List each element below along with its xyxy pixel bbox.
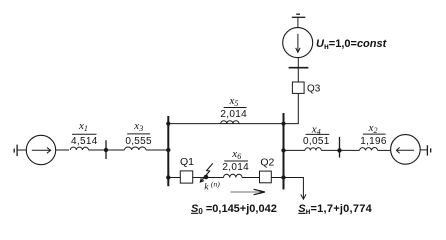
breaker Q1 — [180, 156, 194, 183]
reactor x3 coil — [125, 147, 146, 150]
node junction tick right — [337, 137, 341, 158]
wire — [89, 149, 125, 151]
svg-text:Q1: Q1 — [180, 156, 194, 168]
wire — [242, 177, 259, 179]
svg-text:0,051: 0,051 — [303, 136, 330, 147]
svg-text:(n): (n) — [211, 179, 220, 188]
reactor x2 coil — [360, 147, 378, 150]
svg-text:2,014: 2,014 — [220, 109, 247, 120]
wire — [193, 177, 224, 179]
breaker Q3 — [292, 82, 320, 94]
label x2 — [360, 122, 387, 147]
svg-text:Q3: Q3 — [307, 83, 321, 94]
wire bottom branch left — [168, 177, 180, 179]
wire — [56, 149, 69, 151]
wire right main — [284, 149, 306, 151]
wire — [321, 149, 359, 151]
bus bar right vertical — [281, 113, 285, 190]
source system top — [283, 28, 313, 58]
svg-text:Q2: Q2 — [260, 156, 274, 168]
reactor x5 coil — [221, 121, 239, 124]
svg-text:S0 =0,145+j0,042: S0 =0,145+j0,042 — [191, 203, 277, 216]
wire — [271, 177, 283, 179]
wire top branch — [168, 93, 298, 123]
fault k(n) lightning — [200, 163, 220, 192]
system terminal right — [427, 145, 430, 155]
svg-text:0,555: 0,555 — [125, 136, 152, 147]
wire — [420, 149, 427, 151]
load arrow S_H — [284, 178, 307, 200]
label x1 — [71, 120, 98, 147]
generator G2 (right source) — [391, 135, 421, 165]
flow direction arrow — [231, 189, 266, 194]
wire — [378, 149, 391, 151]
label x5 — [220, 95, 247, 120]
svg-text:1,196: 1,196 — [360, 136, 387, 147]
generator G1 (left source) — [26, 135, 55, 164]
label x4 — [303, 123, 330, 147]
node junction tick left — [104, 140, 108, 159]
system terminal left — [14, 145, 17, 157]
reactor x4 coil — [305, 148, 321, 151]
svg-text:4,514: 4,514 — [71, 136, 98, 147]
wire — [297, 17, 299, 27]
label x6 — [222, 148, 249, 173]
reactor x1 coil — [70, 147, 88, 150]
wire — [146, 149, 168, 151]
label x3 — [125, 120, 152, 147]
breaker Q2 — [260, 156, 275, 182]
system terminal top — [292, 14, 306, 17]
wire — [17, 149, 26, 151]
tick bar below top source — [289, 67, 309, 69]
svg-text:2,014: 2,014 — [222, 162, 249, 173]
wire — [297, 58, 299, 82]
reactor x6 coil — [224, 174, 243, 177]
bus bar left vertical — [166, 116, 170, 186]
